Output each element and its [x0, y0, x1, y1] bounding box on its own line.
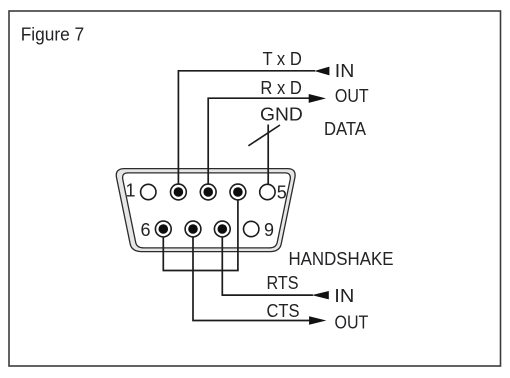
svg-text:IN: IN — [334, 286, 354, 306]
pin 8 (connected) — [214, 221, 230, 237]
wire GND to pin5 — [267, 125, 269, 185]
svg-text:Figure 7: Figure 7 — [21, 25, 84, 45]
svg-text:9: 9 — [264, 220, 274, 240]
svg-text:IN: IN — [335, 61, 355, 81]
svg-text:OUT: OUT — [335, 313, 369, 333]
pin 1 (open) — [141, 184, 156, 199]
svg-text:RTS: RTS — [267, 273, 299, 293]
wire pin6 down to bus — [162, 237, 164, 271]
svg-text:R x D: R x D — [260, 78, 301, 98]
wire pin8 to RTS — [222, 237, 313, 295]
pin 2 (connected) — [171, 184, 187, 200]
svg-text:CTS: CTS — [267, 301, 300, 321]
pin 6 (connected) — [155, 221, 171, 237]
svg-text:5: 5 — [277, 182, 287, 202]
svg-text:6: 6 — [141, 220, 151, 240]
wire pin3 to RxD — [208, 98, 309, 184]
pin 3 (connected) — [200, 184, 216, 200]
pin 4 (connected) — [230, 184, 246, 200]
pin 9 (open) — [244, 221, 259, 236]
pin 7 (connected) — [185, 221, 201, 237]
pin 5 (open, GND) — [260, 184, 275, 199]
svg-text:1: 1 — [126, 181, 136, 201]
arrowhead OUT (CTS, points right) — [309, 316, 326, 324]
bus wire joining pins 6 and 4 — [163, 270, 239, 272]
arrowhead IN (RTS, points left) — [312, 291, 329, 299]
svg-text:GND: GND — [260, 105, 303, 125]
arrowhead IN (TxD, points left) — [314, 67, 329, 76]
arrowhead OUT (RxD, points right) — [309, 94, 326, 103]
wire pin2 to TxD — [178, 71, 315, 185]
wire pin7 to CTS — [193, 237, 310, 321]
svg-text:DATA: DATA — [324, 119, 366, 139]
wire pin4 down to bus — [237, 200, 239, 271]
svg-text:HANDSHAKE: HANDSHAKE — [289, 249, 394, 269]
svg-text:OUT: OUT — [335, 86, 369, 106]
connector shell outer (DB9 shell) — [116, 169, 295, 252]
GND slash mark — [248, 125, 280, 146]
svg-text:T x D: T x D — [263, 49, 302, 69]
connector shell inner — [123, 173, 291, 248]
